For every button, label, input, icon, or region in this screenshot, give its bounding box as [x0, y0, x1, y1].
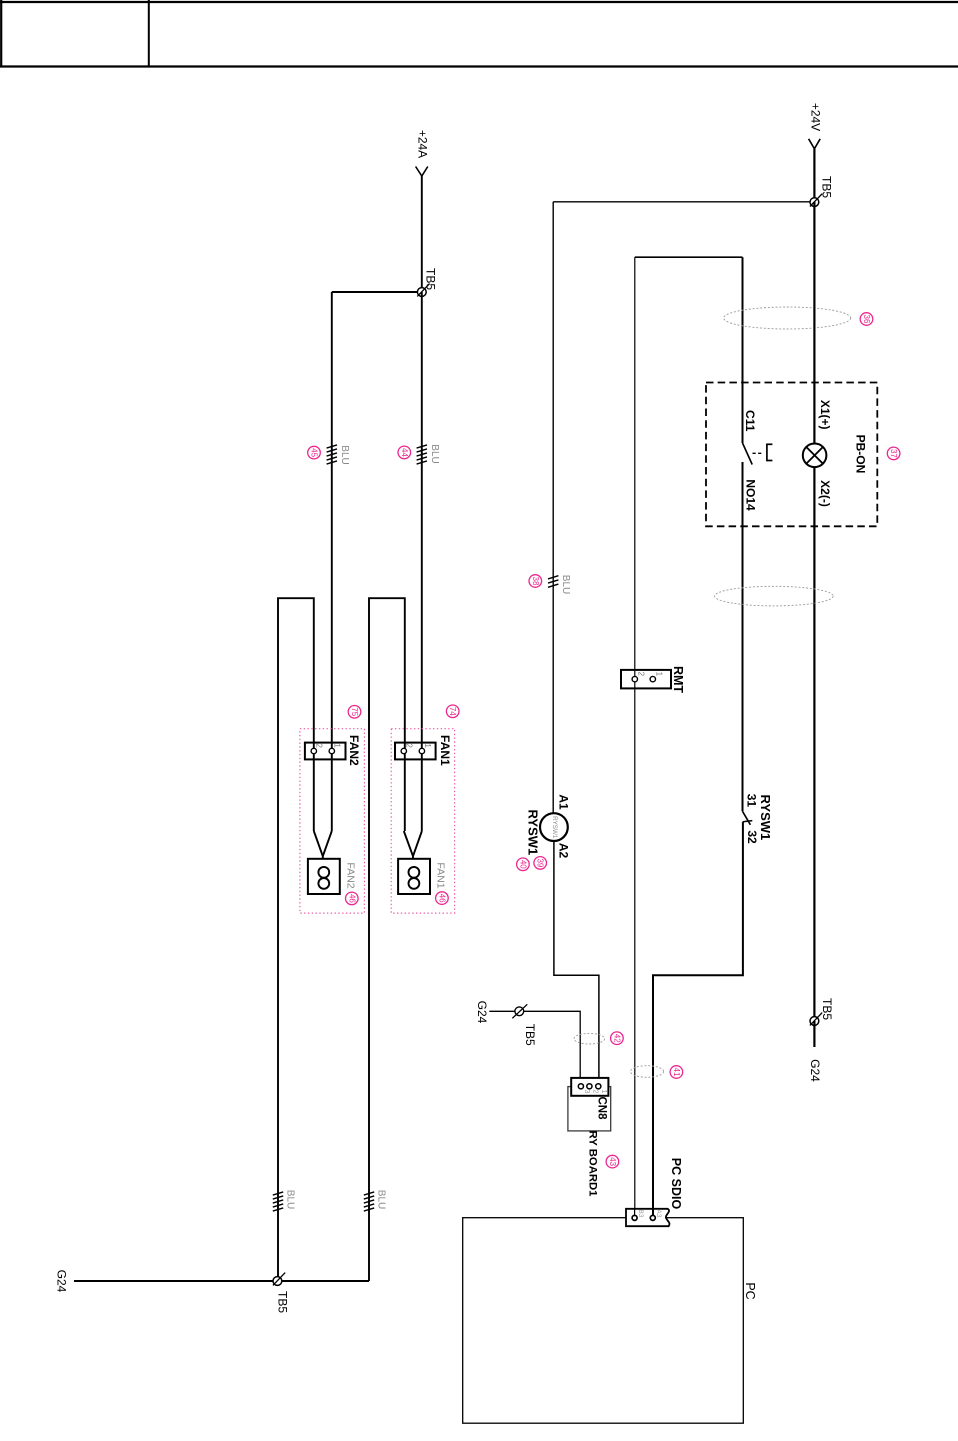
callout 42: [611, 1032, 624, 1045]
svg-text:TB5: TB5: [276, 1291, 290, 1313]
wire X2 down to TB5: [813, 467, 815, 1021]
PC SDIO pin B3: [632, 1215, 637, 1220]
svg-text:TB5: TB5: [820, 998, 834, 1020]
svg-text:A2: A2: [557, 843, 571, 859]
wire TB5 to G24: [813, 1021, 815, 1047]
relay contact RYSW1 31-32: [743, 811, 751, 825]
svg-text:RY BOARD1: RY BOARD1: [587, 1131, 599, 1197]
terminal TB5 (upper left): [417, 288, 426, 297]
connector PC SDIO: [626, 1209, 669, 1226]
svg-text:C11: C11: [743, 410, 757, 432]
wire RMT line down to PC: [634, 257, 636, 1218]
wire branch down to coil A1: [552, 202, 554, 813]
svg-text:2: 2: [315, 743, 324, 748]
svg-text:TB5: TB5: [424, 268, 438, 290]
svg-text:PB-ON: PB-ON: [853, 435, 867, 474]
title block frame: [0, 0, 958, 67]
wire taper into FAN2 motor: [314, 831, 323, 859]
svg-text:+24A: +24A: [416, 130, 430, 158]
wire NO14 down to relay contact: [742, 462, 744, 811]
terminal TB5 (lower right): [810, 1017, 819, 1026]
svg-text:G24: G24: [808, 1059, 822, 1082]
PC box: [463, 1218, 744, 1424]
FAN1 connector pin 2: [401, 748, 406, 753]
svg-text:PC: PC: [743, 1282, 757, 1299]
supply +24V terminal: [809, 139, 821, 149]
supply +24A terminal: [416, 167, 428, 177]
svg-text:FAN1: FAN1: [435, 862, 447, 888]
wire taper into FAN1 motor: [404, 831, 413, 859]
callout 40: [517, 858, 530, 871]
svg-text:46: 46: [437, 894, 446, 903]
svg-text:X2(-): X2(-): [818, 480, 832, 507]
connector FAN2: [305, 743, 346, 760]
svg-text:BLU: BLU: [376, 1190, 387, 1209]
svg-text:CN8: CN8: [596, 1096, 608, 1120]
svg-text:NO14: NO14: [744, 479, 758, 511]
svg-text:3: 3: [583, 1089, 590, 1093]
svg-text:FAN1: FAN1: [438, 735, 452, 766]
svg-text:2: 2: [405, 743, 414, 748]
FAN1 connector pin 1: [419, 748, 424, 753]
svg-text:RYSW1: RYSW1: [526, 810, 541, 856]
wire TB5 horizontal to FAN2 feed: [332, 291, 422, 293]
CN8 pin 2: [587, 1084, 592, 1089]
svg-text:RYSW1: RYSW1: [758, 795, 773, 841]
FAN1 motor: [398, 859, 430, 894]
wire G24 to CN8 pin 3: [489, 1011, 580, 1086]
wire G24 bottom bus: [74, 1280, 369, 1282]
wire 32 down and over to PC SDIO: [653, 822, 743, 1218]
svg-text:39: 39: [536, 858, 545, 867]
svg-text:74: 74: [448, 707, 457, 716]
relay coil RYSW1: [540, 813, 568, 841]
svg-text:37: 37: [889, 449, 898, 458]
callout 74: [446, 705, 459, 718]
FAN2 connector pin 2: [311, 748, 316, 753]
terminal TB5 (bottom left): [273, 1277, 282, 1286]
FAN2 motor: [308, 859, 340, 894]
svg-text:41: 41: [672, 1068, 681, 1077]
callout 75: [348, 706, 361, 719]
FAN1 unit enclosure (dotted): [391, 729, 454, 913]
wire to switch C11: [742, 257, 744, 443]
RMT pin 2: [632, 676, 637, 681]
callout 39: [534, 857, 547, 870]
svg-text:38: 38: [531, 577, 540, 586]
switch blade: [743, 443, 753, 465]
wire marker 38 BLU: [548, 576, 558, 588]
FAN2 connector pin 1: [329, 748, 334, 753]
cable group ellipse (41): [630, 1066, 663, 1078]
svg-text:36: 36: [862, 315, 871, 324]
terminal TB5 (middle): [515, 1007, 524, 1016]
PC SDIO pin A3: [650, 1215, 655, 1220]
svg-text:TB5: TB5: [523, 1024, 537, 1046]
svg-text:45: 45: [310, 448, 319, 457]
wire +24A down to TB5: [421, 176, 423, 292]
connector CN8 body (RY BOARD1): [568, 1087, 611, 1131]
svg-text:BLU: BLU: [429, 444, 440, 463]
terminal TB5 (upper right): [810, 198, 819, 207]
callout 46 (FAN1): [436, 892, 449, 905]
pushbutton actuator link (dashed): [753, 452, 763, 454]
svg-text:31: 31: [745, 794, 759, 808]
svg-text:BLU: BLU: [285, 1190, 296, 1209]
CN8 pin 1: [596, 1084, 601, 1089]
connector FAN1: [395, 743, 436, 760]
CN8 pin 3: [578, 1084, 583, 1089]
PB-ON enclosure (dashed): [706, 383, 877, 527]
svg-text:G24: G24: [475, 1001, 489, 1024]
svg-text:43: 43: [608, 1157, 617, 1166]
svg-text:2: 2: [636, 672, 645, 677]
svg-text:PC SDIO: PC SDIO: [669, 1158, 683, 1210]
svg-text:1: 1: [333, 743, 342, 748]
svg-text:FAN2: FAN2: [345, 862, 357, 888]
RMT pin 1: [650, 676, 655, 681]
wire bridge to RMT and pushbutton: [635, 256, 743, 258]
callout 43: [606, 1155, 619, 1168]
connector CN8 plug: [571, 1078, 608, 1096]
svg-text:BLU: BLU: [339, 445, 350, 464]
wire TB5 horizontal to coil branch: [553, 201, 814, 203]
callout 36: [860, 313, 873, 326]
FAN2 unit enclosure (dotted): [300, 729, 365, 913]
wire FAN2 pin1 feed: [331, 292, 333, 831]
svg-text:A3: A3: [655, 1209, 662, 1217]
svg-text:1: 1: [654, 672, 663, 677]
svg-text:A1: A1: [557, 794, 571, 810]
svg-text:40: 40: [518, 860, 527, 869]
svg-text:32: 32: [745, 830, 759, 844]
svg-text:1: 1: [600, 1089, 607, 1093]
wire FAN1 return upper: [369, 598, 405, 1281]
lamp PB-ON: [803, 444, 827, 468]
svg-text:FAN2: FAN2: [347, 735, 361, 766]
callout 41: [670, 1066, 683, 1079]
svg-text:RYSW1: RYSW1: [551, 816, 558, 839]
wire coil A2 to CN8 pin 1: [554, 841, 599, 1086]
svg-text:TB5: TB5: [819, 176, 833, 198]
svg-text:G24: G24: [55, 1270, 69, 1293]
cable group ellipse (42): [574, 1033, 605, 1044]
svg-text:44: 44: [400, 448, 409, 457]
wire FAN1 pin1 feed: [421, 292, 423, 831]
wire marker 44 BLU: [417, 445, 427, 464]
svg-text:+24V: +24V: [809, 103, 823, 131]
wire marker BLU (FAN1 return): [364, 1192, 374, 1211]
svg-text:75: 75: [350, 707, 359, 716]
connector RMT: [621, 670, 671, 689]
cable group ellipse (36): [724, 307, 851, 329]
svg-text:RMT: RMT: [671, 666, 685, 693]
svg-text:BLU: BLU: [560, 575, 571, 594]
svg-text:42: 42: [612, 1034, 621, 1043]
svg-text:X1(+): X1(+): [818, 400, 832, 430]
wire marker BLU (FAN2 return): [273, 1192, 283, 1211]
wire X1 feed: [813, 202, 815, 444]
wire +24V down to TB5: [813, 149, 815, 202]
wire FAN2 return upper: [278, 598, 314, 1281]
svg-text:2: 2: [591, 1089, 598, 1093]
wire marker 45 BLU: [327, 445, 337, 464]
wire stubs into PC SDIO pins: [634, 1209, 636, 1218]
callout 37: [887, 447, 900, 460]
svg-text:B3: B3: [637, 1209, 644, 1217]
cable group ellipse (lower): [715, 586, 834, 606]
svg-text:46: 46: [347, 894, 356, 903]
pushbutton actuator cap: [767, 444, 773, 462]
svg-text:1: 1: [423, 743, 432, 748]
callout 46 (FAN2): [346, 892, 359, 905]
